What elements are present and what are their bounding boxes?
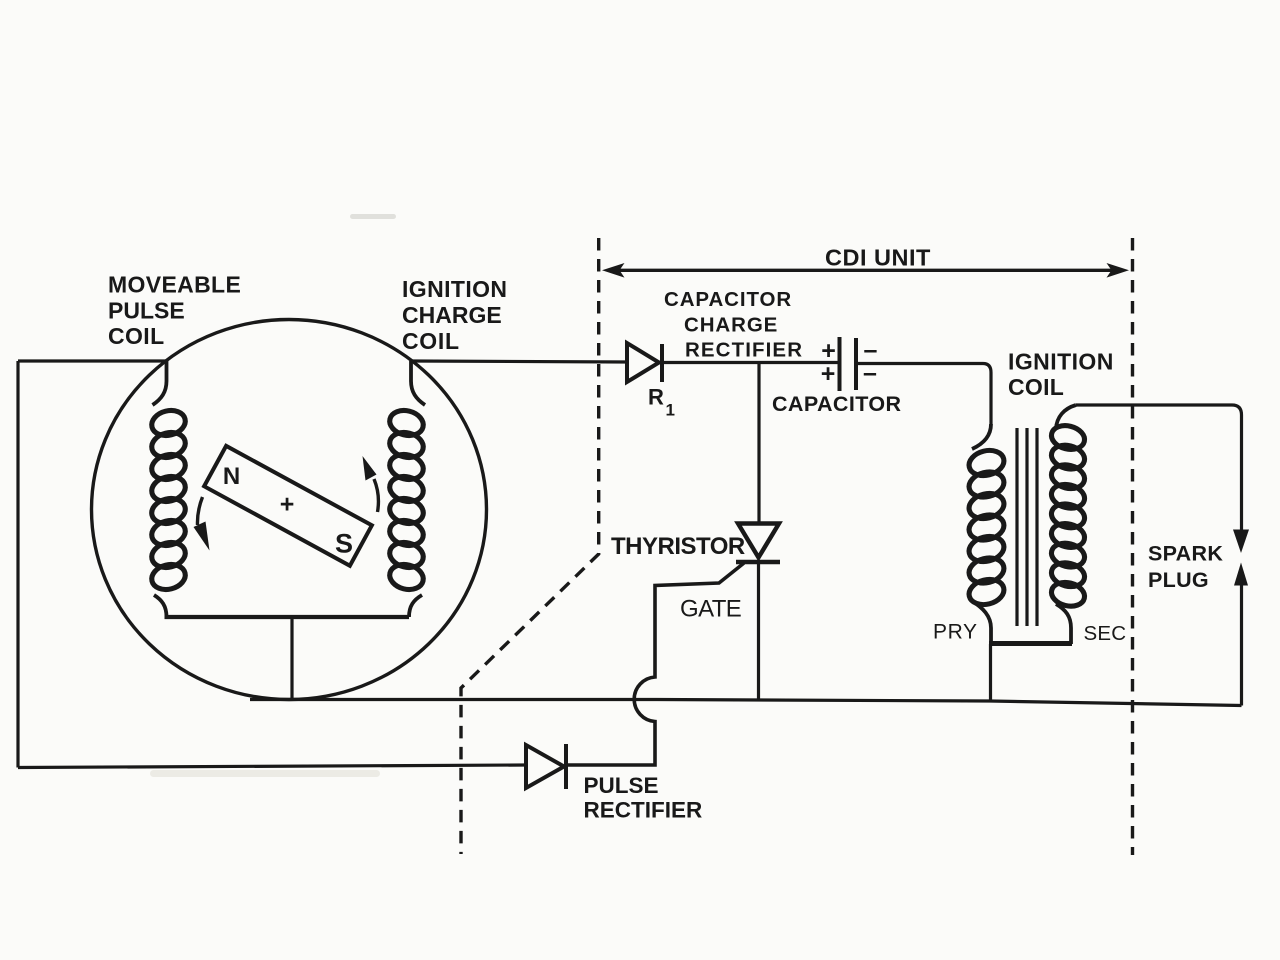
svg-text:+: +: [280, 491, 295, 519]
svg-text:CHARGE: CHARGE: [684, 314, 778, 337]
svg-text:CHARGE: CHARGE: [402, 302, 502, 328]
wire R1 to capacitor: [660, 361, 838, 364]
wire left vertical: [16, 361, 19, 768]
svg-text:RECTIFIER: RECTIFIER: [685, 339, 803, 362]
main bottom wire: [250, 700, 1242, 706]
svg-text:+: +: [821, 360, 836, 388]
svg-text:PULSE: PULSE: [108, 298, 185, 324]
rotation arrow right: [363, 456, 379, 512]
capacitor C1: [821, 336, 878, 391]
svg-text:PLUG: PLUG: [1148, 568, 1209, 592]
thyristor SCR: [736, 524, 780, 700]
scan smudge top: [350, 214, 396, 219]
svg-text:RECTIFIER: RECTIFIER: [584, 798, 703, 823]
CDI unit right dashed boundary: [1131, 238, 1134, 855]
rotation arrow left: [194, 497, 210, 551]
wire spark plug to bottom: [1240, 584, 1243, 706]
wire bottom-left horizontal: [18, 765, 526, 768]
svg-text:COIL: COIL: [108, 323, 165, 349]
CDI unit span arrow: [602, 263, 1129, 278]
svg-text:MOVEABLE: MOVEABLE: [108, 272, 241, 298]
ignition coil secondary SEC: [1049, 405, 1087, 644]
wire capacitor to ignition coil: [856, 364, 991, 425]
svg-text:COIL: COIL: [1008, 374, 1064, 400]
CDI unit left dashed boundary: [461, 238, 599, 854]
ignition coil primary PRY: [966, 424, 1006, 644]
wire SEC top to spark plug: [1076, 405, 1242, 531]
svg-text:1: 1: [666, 401, 675, 420]
svg-text:IGNITION: IGNITION: [1008, 349, 1114, 375]
node: branch to thyristor: [757, 363, 760, 523]
wire from charge coil to R1: [411, 361, 627, 362]
svg-text:THYRISTOR: THYRISTOR: [611, 533, 745, 560]
moveable pulse coil L1: [149, 361, 188, 617]
svg-text:R: R: [648, 385, 664, 410]
svg-text:PRY: PRY: [933, 621, 978, 644]
diode R1 (capacitor charge rectifier): [627, 343, 662, 382]
svg-text:SPARK: SPARK: [1148, 542, 1223, 566]
center tap wire: [290, 617, 293, 700]
svg-text:N: N: [223, 463, 240, 490]
svg-text:CAPACITOR: CAPACITOR: [664, 288, 792, 311]
wire PRY bottom to main wire: [989, 644, 992, 701]
svg-text:CDI UNIT: CDI UNIT: [825, 245, 931, 271]
spark gap up arrow: [1234, 563, 1248, 586]
svg-text:GATE: GATE: [680, 596, 741, 623]
scan smudge bottom-left: [150, 770, 380, 777]
svg-text:IGNITION: IGNITION: [402, 276, 507, 302]
svg-text:PULSE: PULSE: [584, 773, 659, 798]
svg-text:COIL: COIL: [402, 328, 460, 354]
flywheel circle: [92, 320, 487, 700]
thyristor gate wire with hop over main wire: [567, 563, 744, 765]
svg-text:S: S: [335, 529, 353, 559]
transformer bottom bus: [989, 641, 1072, 646]
pulse rectifier diode: [526, 744, 566, 789]
coil bottom bus: [165, 615, 410, 619]
magnet bar: [204, 446, 372, 566]
svg-text:SEC: SEC: [1084, 622, 1127, 645]
spark gap down arrow: [1233, 530, 1249, 554]
wire top-left horizontal: [18, 359, 167, 362]
ignition charge coil L2: [387, 361, 426, 617]
svg-text:CAPACITOR: CAPACITOR: [772, 392, 901, 416]
ignition coil core: [1017, 428, 1037, 626]
